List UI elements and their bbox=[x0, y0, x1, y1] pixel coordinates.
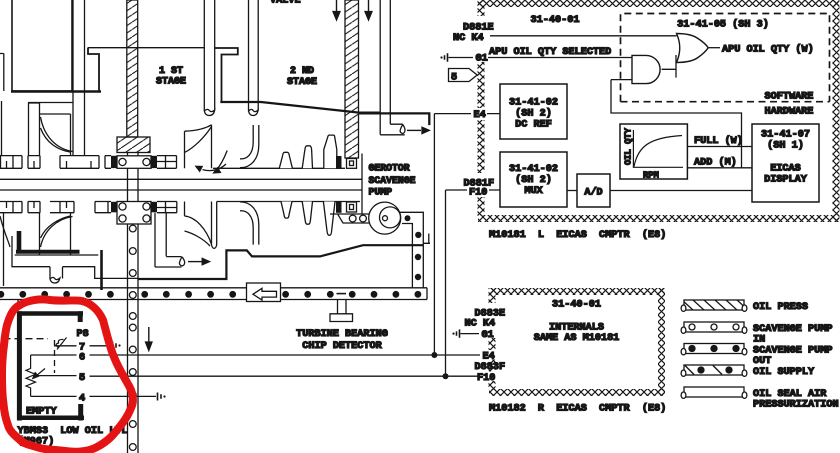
lower slot (pipe mirror) bbox=[212, 202, 217, 249]
svg-text:F10: F10 bbox=[469, 188, 487, 199]
junction dot E4 bbox=[431, 352, 437, 358]
F10 long wire to computers bbox=[90, 375, 481, 377]
wiper arrow bbox=[36, 369, 45, 377]
pump outlet channel bbox=[400, 212, 430, 288]
lower bearing black squares bbox=[111, 202, 117, 213]
hatched structural column 2 bbox=[345, 0, 359, 158]
svg-text:STAGE: STAGE bbox=[156, 77, 186, 88]
scavenge inlet pipes above pump bbox=[380, 0, 405, 135]
sump drain pipe with curl bbox=[50, 267, 63, 283]
svg-text:TURBINE BEARING: TURBINE BEARING bbox=[296, 329, 388, 340]
svg-text:RPM: RPM bbox=[643, 171, 659, 181]
svg-text:HARDWARE: HARDWARE bbox=[765, 107, 814, 118]
lower bracket legs bbox=[40, 213, 71, 255]
black seal marks near column2 top row bbox=[336, 156, 342, 168]
oil gallery dots left bbox=[0, 291, 114, 298]
lower bearing row blocks bbox=[7, 202, 177, 213]
2nd stage pipe B (vertical pair with rolled tip) bbox=[249, 0, 259, 116]
svg-text:G1: G1 bbox=[476, 54, 488, 65]
M10181 box crosshatch border right bbox=[833, 0, 840, 222]
oil gallery band rails bbox=[0, 288, 427, 300]
sump casing contour bbox=[4, 213, 139, 286]
lower J vane bbox=[240, 202, 259, 245]
svg-text:INTERNALS: INTERNALS bbox=[549, 323, 604, 334]
svg-text:5: 5 bbox=[451, 73, 457, 84]
1st stage stator legs bbox=[28, 103, 71, 156]
M10182 box crosshatch border top bbox=[489, 288, 665, 295]
svg-text:CHIP DETECTOR: CHIP DETECTOR bbox=[302, 341, 382, 352]
wire A/D to EICAS display bbox=[610, 190, 752, 192]
svg-text:PRESSURIZATION: PRESSURIZATION bbox=[753, 400, 839, 411]
M10181 box crosshatch border top bbox=[478, 0, 839, 7]
oil pipe left (vertical pair) bbox=[73, 0, 85, 155]
casing step right of housing bbox=[88, 48, 99, 92]
svg-text:F10: F10 bbox=[477, 373, 495, 384]
sensor housing thick C-shape bbox=[17, 311, 22, 420]
svg-text:OUT: OUT bbox=[753, 356, 771, 367]
svg-text:D881E: D881E bbox=[463, 23, 494, 34]
M10182 box crosshatch border left segments bbox=[489, 288, 496, 303]
F10 sense wire vertical bbox=[445, 190, 447, 376]
column rivet circles bbox=[129, 225, 136, 232]
gerotor pump rotor bbox=[369, 202, 401, 234]
flow arrow small 1 bbox=[203, 164, 227, 171]
legend bar OIL PRESS bbox=[681, 300, 808, 313]
pump inlet circles bbox=[349, 215, 356, 222]
svg-text:31-41-02: 31-41-02 bbox=[509, 164, 558, 175]
svg-text:A/D: A/D bbox=[584, 187, 602, 199]
svg-text:APU OIL QTY (W): APU OIL QTY (W) bbox=[722, 44, 814, 56]
gearbox housing rectangle top-left bbox=[12, 0, 72, 91]
EICAS display box 31-41-07 bbox=[752, 124, 819, 202]
M10182 box crosshatch border right bbox=[658, 288, 665, 396]
wire into G1 bbox=[449, 57, 474, 59]
svg-text:M10181 L EICAS CMPTR (E8): M10181 L EICAS CMPTR (E8) bbox=[489, 229, 666, 241]
legend bar SCAVENGE PUMP OUT bbox=[681, 344, 832, 368]
thick casing line to vent hook bbox=[359, 113, 429, 125]
1st stage blade center bbox=[185, 125, 212, 169]
svg-text:G1: G1 bbox=[482, 330, 494, 341]
svg-text:2 ND: 2 ND bbox=[290, 66, 314, 77]
graph curve bbox=[634, 136, 682, 167]
pin 4 termination symbol bbox=[158, 393, 162, 401]
svg-text:D883F: D883F bbox=[475, 362, 506, 373]
svg-text:31-40-01: 31-40-01 bbox=[552, 300, 601, 311]
svg-text:SCAVENGE: SCAVENGE bbox=[369, 175, 416, 186]
svg-text:APU OIL QTY SELECTED: APU OIL QTY SELECTED bbox=[489, 47, 611, 58]
legend bar SCAVENGE PUMP IN bbox=[681, 322, 832, 346]
labyrinth seal comb upper bbox=[213, 167, 345, 169]
wire MUX to A/D bbox=[567, 190, 577, 192]
center support column lower (behind rows) bbox=[128, 153, 139, 453]
svg-text:PUMP: PUMP bbox=[369, 187, 393, 198]
oil qty vs rpm graph box bbox=[620, 124, 687, 179]
float linkage dashed bbox=[4, 338, 49, 340]
svg-text:(SH 1): (SH 1) bbox=[767, 140, 804, 152]
M10181 box crosshatch border bottom bbox=[478, 215, 839, 222]
svg-text:OIL QTY: OIL QTY bbox=[624, 127, 634, 165]
svg-text:M10182 R EICAS CMPTR (E8): M10182 R EICAS CMPTR (E8) bbox=[489, 403, 666, 415]
svg-text:E4: E4 bbox=[483, 351, 495, 362]
turbine inlet down arrow 1 bbox=[336, 0, 338, 12]
software/hardware dashed boundary box 31-41-05 bbox=[621, 14, 830, 102]
wire K4 to OR gate bbox=[490, 35, 677, 37]
drain flow arrow bbox=[188, 261, 202, 263]
svg-text:31-40-01: 31-40-01 bbox=[531, 15, 580, 26]
drain teardrop 2 bbox=[179, 257, 184, 266]
wire into G1 (R) bbox=[461, 333, 480, 335]
casing ledge under housing bbox=[2, 101, 74, 156]
down arrow below gallery bbox=[148, 327, 150, 343]
svg-text:4: 4 bbox=[79, 393, 85, 404]
thick 2nd stage casing line with slant bbox=[220, 102, 380, 113]
lower bearing roller cluster with 4 circles bbox=[117, 202, 151, 225]
junction dot F10 bbox=[443, 373, 449, 379]
svg-text:FULL (W): FULL (W) bbox=[694, 135, 743, 147]
AND output wire bbox=[662, 55, 676, 78]
legend bar OIL SUPPLY bbox=[681, 365, 815, 378]
flow arrow small 2 bbox=[216, 151, 227, 171]
svg-text:MUX: MUX bbox=[524, 186, 543, 197]
G1 termination symbol (R) bbox=[452, 333, 454, 335]
black seal marks near column2 bottom row bbox=[336, 201, 342, 213]
float pivot glyph bbox=[56, 338, 66, 350]
graph axes bbox=[633, 130, 683, 167]
casing hook between pipes bbox=[215, 48, 238, 102]
G1 ground termination symbol bbox=[440, 56, 442, 58]
svg-text:NC K4: NC K4 bbox=[465, 318, 496, 329]
svg-text:(SH 2): (SH 2) bbox=[515, 108, 552, 120]
casing line 1st stage bbox=[88, 47, 204, 49]
MUX box 31-41-02 (SH 2) bbox=[500, 152, 567, 207]
main shaft lines bbox=[0, 179, 362, 190]
sheet reference flag 5 bbox=[449, 69, 478, 82]
labyrinth comb lower bbox=[217, 201, 360, 203]
wire F10 bbox=[446, 189, 501, 191]
svg-text:ADD (M): ADD (M) bbox=[694, 157, 737, 169]
support post left bbox=[100, 250, 103, 290]
turbine bearing chip detector symbol bbox=[330, 300, 353, 322]
M10181 box crosshatch border left segments bbox=[478, 0, 485, 16]
pump platform bbox=[330, 214, 371, 223]
M10182 box crosshatch border bottom bbox=[489, 389, 665, 396]
E4 sense wire vertical bbox=[433, 114, 435, 355]
software feedback wire bbox=[611, 80, 742, 168]
turbine inlet down arrow 2 bbox=[368, 0, 370, 12]
wire E4 bbox=[434, 113, 500, 115]
left engine sump thick walls bbox=[17, 231, 22, 250]
E4 long wire to computers bbox=[90, 354, 481, 356]
svg-text:STAGE: STAGE bbox=[287, 77, 317, 88]
svg-text:5: 5 bbox=[79, 373, 85, 384]
svg-text:IN: IN bbox=[753, 335, 765, 346]
upper bearing row blocks bbox=[1, 156, 177, 169]
svg-text:OIL PRESS: OIL PRESS bbox=[753, 302, 808, 313]
svg-text:31-41-07: 31-41-07 bbox=[761, 130, 810, 141]
outlet dot 2 bbox=[415, 232, 421, 238]
svg-text:31-41-02: 31-41-02 bbox=[509, 98, 558, 109]
left edge pipe stub bbox=[0, 54, 4, 92]
float level resistor (variable) bbox=[26, 355, 36, 396]
AND lower input wire bbox=[611, 79, 632, 81]
sump blade bbox=[41, 216, 73, 247]
OR gate bbox=[677, 34, 709, 63]
AND gate bbox=[632, 55, 660, 83]
svg-text:EMPTY: EMPTY bbox=[26, 407, 57, 418]
OR output wire bbox=[708, 47, 720, 49]
svg-text:(SH 2): (SH 2) bbox=[515, 174, 552, 186]
A/D converter box bbox=[577, 174, 610, 207]
column1 base block bbox=[117, 137, 150, 153]
1st stage pipe A (vertical pair with rolled tip) bbox=[204, 0, 214, 116]
lower stage legs bbox=[155, 213, 166, 267]
DC REF box 31-41-02 (SH 2) bbox=[500, 84, 567, 139]
hatched structural column 1 bbox=[127, 0, 138, 137]
upper bearing roller circles bbox=[117, 156, 151, 169]
oil gallery dots right bbox=[141, 291, 421, 298]
svg-text:GEROTOR: GEROTOR bbox=[369, 163, 410, 174]
svg-text:SCAVENGE PUMP: SCAVENGE PUMP bbox=[753, 346, 832, 357]
legend bar OIL SEAL AIR PRESSURIZATION bbox=[681, 387, 838, 411]
svg-text:6: 6 bbox=[79, 352, 85, 363]
oil drip teardrop bbox=[400, 125, 405, 134]
svg-text:SOFTWARE: SOFTWARE bbox=[765, 92, 814, 103]
svg-text:SAME AS M10181: SAME AS M10181 bbox=[534, 333, 620, 344]
pump outlet dot bbox=[405, 215, 411, 221]
svg-text:P8: P8 bbox=[77, 329, 89, 340]
lower casing thick contour to channel bbox=[139, 245, 424, 279]
svg-text:VALVE: VALVE bbox=[270, 0, 301, 7]
wire G1 to AND gate bbox=[488, 57, 632, 59]
lower bearing row rail bbox=[0, 202, 177, 213]
svg-text:EICAS: EICAS bbox=[770, 164, 801, 175]
svg-text:OIL SEAL AIR: OIL SEAL AIR bbox=[753, 389, 827, 400]
svg-text:SCAVENGE PUMP: SCAVENGE PUMP bbox=[753, 324, 832, 335]
svg-text:OIL SUPPLY: OIL SUPPLY bbox=[753, 367, 815, 378]
lower drain with teardrop bbox=[155, 257, 182, 267]
lower-left blade fragment at edge bbox=[0, 216, 10, 247]
2nd stage stator vane J-blade bbox=[240, 125, 259, 168]
svg-text:31-41-05 (SH 3): 31-41-05 (SH 3) bbox=[677, 19, 769, 31]
pump housing bbox=[361, 154, 363, 215]
upper bearing black squares bbox=[111, 156, 117, 168]
svg-text:NC K4: NC K4 bbox=[453, 33, 484, 44]
svg-text:E4: E4 bbox=[474, 110, 486, 121]
svg-text:DISPLAY: DISPLAY bbox=[764, 175, 808, 186]
svg-text:DC REF: DC REF bbox=[515, 120, 552, 131]
tick between dots at chip detector bbox=[337, 293, 347, 295]
upper bearing row rail bbox=[0, 156, 177, 169]
link from gallery to sensor bbox=[17, 300, 19, 311]
svg-text:1 ST: 1 ST bbox=[159, 66, 183, 77]
lower blade center bbox=[185, 202, 212, 247]
oil flow arrow to sense line bbox=[407, 129, 421, 131]
flow direction arrow box bbox=[247, 283, 281, 302]
pin 7 termination symbol bbox=[113, 342, 117, 350]
1st stage blade left bbox=[41, 117, 73, 152]
